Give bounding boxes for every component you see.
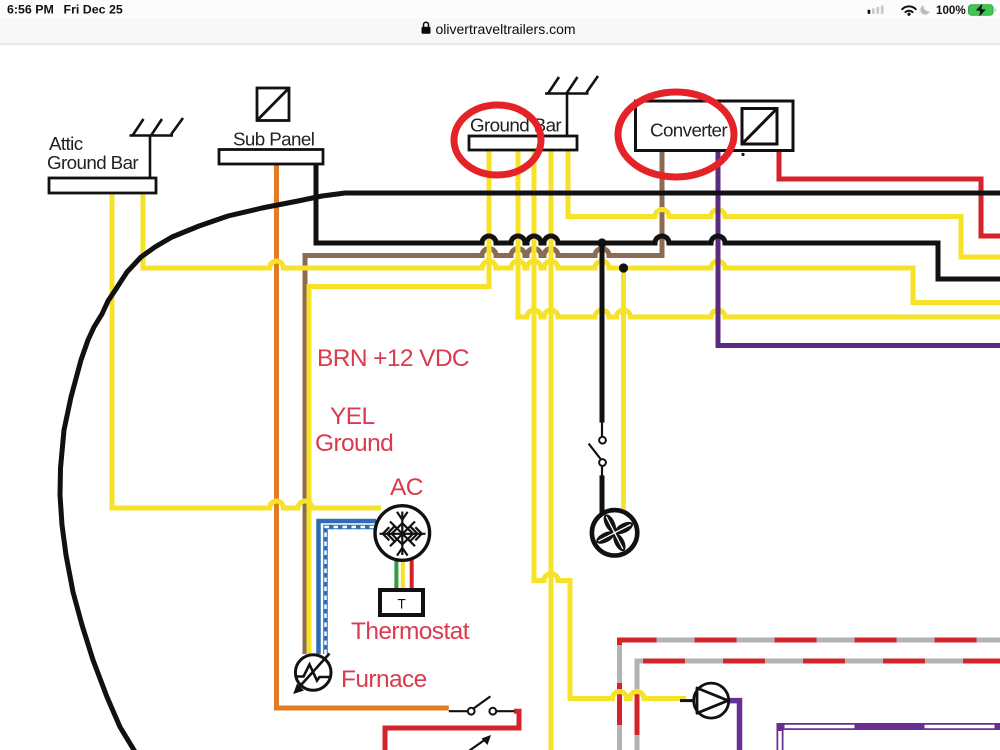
wire red: from Converter right box down and right to edge (779, 150, 1000, 236)
tiny dot artifact below converter (741, 153, 744, 156)
converter square symbol (742, 109, 777, 145)
wire green: AC to Thermostat (394, 558, 398, 591)
wire black: switch to fan (600, 475, 605, 513)
url bar lock icon (422, 22, 431, 34)
svg-text:T: T (398, 597, 406, 612)
wire yellow: Ground Bar leg 2 down then right to edge (518, 148, 1000, 317)
wire yellow: Ground Bar leg 4 straight down to bottom edge (549, 148, 554, 750)
svg-text:Converter: Converter (650, 120, 727, 141)
wire gray/red dashed line B (vertical+horizontal) (637, 661, 1000, 750)
converter box (636, 101, 794, 151)
sub panel square symbol (257, 88, 289, 121)
wire yellow: AC to Thermostat (401, 558, 405, 591)
red highlight ellipse around Converter (618, 92, 734, 177)
svg-text:6:56 PM: 6:56 PM (7, 3, 54, 17)
svg-text:Furnace: Furnace (341, 666, 427, 693)
junction dot on yellow bus (619, 263, 628, 272)
red highlight ellipse around Ground Bar (454, 105, 541, 175)
wire yellow: Ground Bar leg 5 down then right (upper) staircase to edge (568, 148, 1000, 257)
wire brown: BRN +12VDC from Converter down, left along bus, down to Furnace (305, 150, 662, 654)
sub panel bar (219, 150, 323, 165)
svg-text:100%: 100% (936, 4, 966, 17)
svg-text:BRN +12 VDC: BRN +12 VDC (317, 345, 469, 372)
svg-text:Sub Panel: Sub Panel (233, 129, 314, 150)
junction dot on black bus (597, 238, 606, 247)
wire gray/red dashed line A (vertical+horizontal) (620, 640, 1000, 750)
top bar bottom border (0, 44, 1000, 45)
status bar wifi icon (902, 6, 916, 12)
svg-text:olivertraveltrailers.com: olivertraveltrailers.com (436, 21, 576, 37)
wire black: top bus line with big curve down left side (60, 193, 1000, 750)
wire yellow: Attic Ground Bar right leg down, right along bus to right edge staircase (143, 190, 1000, 303)
wire purple: pump to bottom edge (728, 701, 740, 750)
fan F1 (circle with 4 blades) (592, 510, 637, 555)
AC unit U1 (circle with snowflake) (375, 506, 430, 561)
attic antenna (130, 118, 184, 178)
wire purple: Converter down then right to edge (718, 150, 1000, 346)
wire yellow: Attic Ground Bar left leg down to horizontal, to AC (112, 190, 381, 508)
wire red: from switch down-left to bottom edge (385, 711, 519, 750)
wire black: junction drop to switch (600, 243, 605, 423)
furnace (circle with arrow and heat squiggle) (293, 654, 331, 695)
browser top bar background (0, 0, 1000, 44)
switch S2 (furnace circuit switch): leads, terminals, blade (449, 696, 515, 714)
wire blue/white striped: AC left and down to Furnace (326, 527, 375, 654)
pump P1 (circle with triangle) (694, 683, 729, 718)
svg-text:Ground Bar: Ground Bar (470, 115, 561, 136)
wire orange: Sub Panel down and right to switch (277, 160, 449, 708)
status bar battery icon (969, 4, 997, 17)
black lead: yellow wire to pump (680, 699, 694, 702)
svg-text:YEL: YEL (330, 403, 375, 430)
wire yellow: Ground Bar leg 1 down, left, down to Furnace (309, 148, 489, 654)
wire black: Sub Panel down then right bus with staircase to edge (316, 160, 1000, 279)
status bar signal bars (868, 5, 884, 14)
ground bar (bar) (469, 136, 577, 150)
svg-text:Ground: Ground (315, 430, 393, 457)
switch S1 (fan switch): leads, terminals, blade (589, 423, 606, 476)
svg-text:AC: AC (390, 474, 423, 501)
svg-text:Thermostat: Thermostat (351, 618, 470, 645)
wire yellow: Ground Bar leg 3 down, jog right, down to pump (534, 148, 686, 699)
status bar moon icon (920, 5, 929, 14)
wire yellow: fan feed from junction dot down to fan (621, 268, 626, 510)
svg-text:Fri Dec 25: Fri Dec 25 (64, 3, 123, 17)
svg-text:Ground Bar: Ground Bar (47, 152, 138, 173)
wire blue solid: AC left and down to Furnace (319, 521, 377, 654)
thermostat box (380, 590, 423, 615)
svg-text:Attic: Attic (49, 133, 83, 154)
wire purple/white striped (bottom right) (780, 727, 1000, 750)
attic ground bar (bar) (49, 178, 156, 193)
wire red: AC to Thermostat (410, 558, 414, 591)
arrow symbol near bottom edge (466, 735, 491, 750)
ground bar antenna (545, 76, 598, 136)
